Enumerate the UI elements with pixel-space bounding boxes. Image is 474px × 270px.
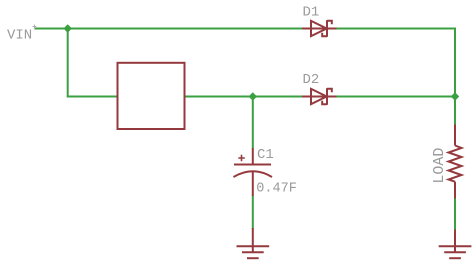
svg-text:VIN: VIN	[7, 28, 32, 44]
resistor LOAD	[449, 125, 462, 199]
wire from node A down left side	[68, 29, 117, 97]
diode D1	[302, 20, 337, 37]
svg-text:D2: D2	[303, 72, 320, 88]
wire from LOAD to ground	[454, 198, 456, 231]
wire top from VIN to D1 anode	[35, 28, 304, 30]
pin mark VIN	[33, 25, 37, 29]
wire from D2 cathode to node C	[336, 96, 456, 98]
svg-text:C1: C1	[257, 147, 274, 163]
node B junction	[249, 92, 257, 100]
svg-text:0.47F: 0.47F	[256, 181, 297, 196]
node C junction	[451, 92, 459, 100]
wire top from D1 cathode to right corner	[336, 29, 455, 126]
node A junction	[63, 24, 71, 32]
svg-text:LOAD: LOAD	[431, 148, 448, 184]
capacitor C1	[234, 148, 273, 196]
wire from node B down to C1	[252, 97, 254, 149]
wire from C1 to ground	[252, 196, 254, 230]
ground (right)	[439, 230, 472, 259]
diode D2	[302, 88, 337, 105]
wire from U1 output to D2 anode	[185, 96, 303, 98]
box U1	[118, 63, 185, 129]
svg-text:D1: D1	[303, 5, 320, 21]
ground (left)	[237, 228, 270, 258]
